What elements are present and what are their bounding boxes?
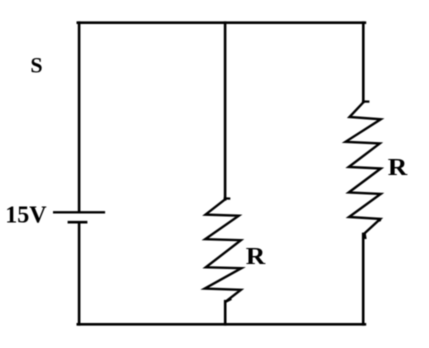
wire bottom [78, 323, 365, 326]
wire top [78, 21, 365, 24]
wire left upper [78, 23, 81, 212]
wire right upper [362, 23, 365, 102]
svg-text:15V: 15V [5, 202, 47, 228]
battery V1 long plate (+) [54, 211, 104, 213]
resistor R1 tick at top [225, 197, 229, 199]
resistor R2 tick at bottom [364, 234, 367, 238]
resistor R2 zigzag [346, 103, 381, 235]
wire middle upper [224, 23, 227, 200]
battery V1 short plate (-) [69, 221, 86, 224]
wire left lower [78, 223, 81, 324]
resistor R2 dot at rung5 right end [377, 218, 381, 222]
resistor R1 zigzag [205, 199, 242, 301]
resistor R1 hook at bottom [226, 299, 231, 301]
svg-text:R: R [246, 244, 266, 270]
svg-text:S: S [30, 52, 42, 77]
wire right lower [362, 234, 365, 324]
svg-text:R: R [388, 155, 408, 181]
wire middle lower [224, 301, 227, 324]
resistor R2 tick at top [363, 100, 368, 102]
